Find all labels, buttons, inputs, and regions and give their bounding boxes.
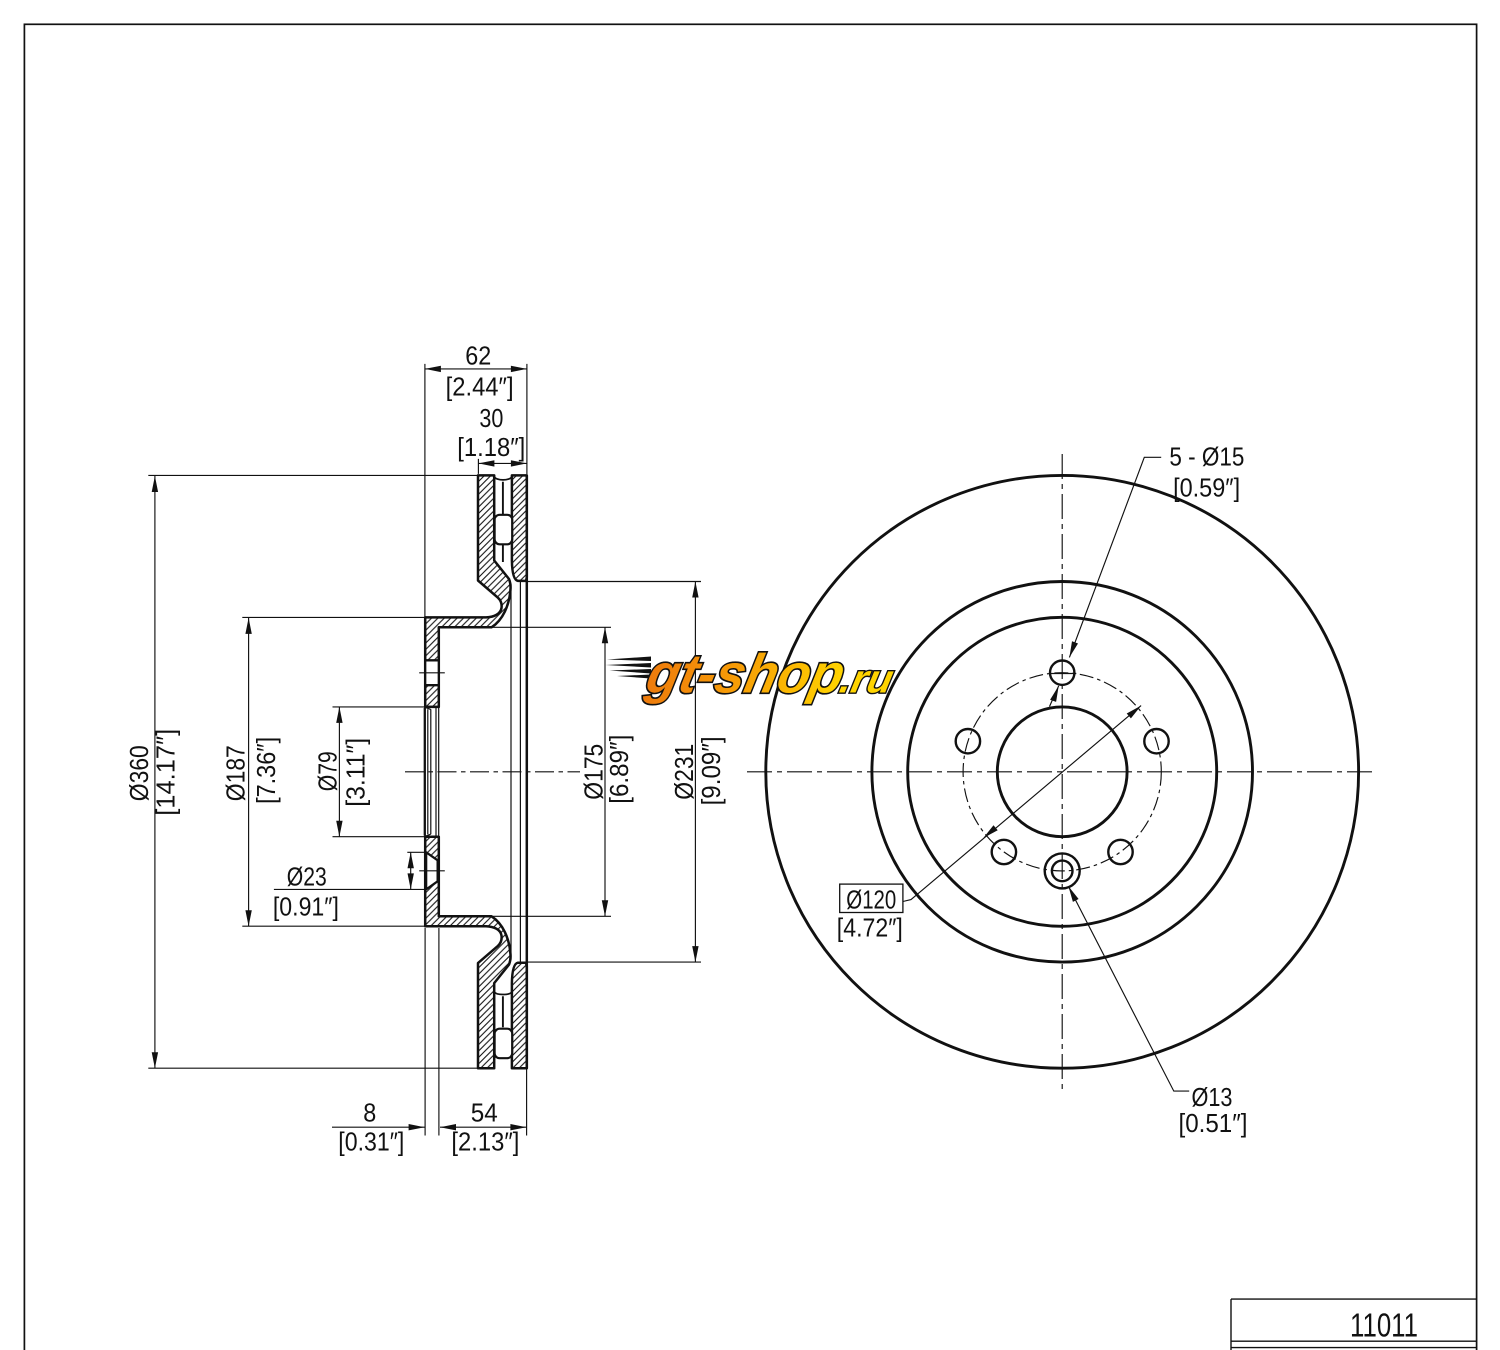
vent channel floor cap lower [494, 992, 512, 995]
svg-text:54: 54 [471, 1100, 498, 1128]
svg-text:[9.09″]: [9.09″] [698, 736, 726, 805]
outboard pad section lower (hatched) [512, 963, 527, 1068]
leader 5-D15 [1050, 457, 1162, 706]
svg-text:11011: 11011 [1350, 1308, 1418, 1345]
bolt hole lower-right [1108, 840, 1132, 864]
svg-text:gt-shop: gt-shop [641, 643, 851, 704]
svg-text:Ø23: Ø23 [287, 864, 327, 892]
hub section lower (mirror, hatched) [425, 837, 510, 1068]
bolt hole top [1050, 661, 1074, 685]
dim 30 arrows [478, 460, 527, 466]
dim D231 lines [523, 582, 701, 963]
svg-text:Ø187: Ø187 [222, 745, 250, 801]
svg-text:[0.51″]: [0.51″] [1179, 1110, 1248, 1138]
svg-text:[3.11″]: [3.11″] [342, 738, 370, 807]
dim D79 arrows [336, 707, 342, 837]
dim D360 lines [148, 475, 477, 1068]
arrowheads [152, 366, 699, 1131]
D120 label box [840, 884, 903, 912]
svg-text:[2.13″]: [2.13″] [451, 1129, 519, 1157]
set screw hole center mark [419, 870, 445, 872]
leader D13 arrowhead [1068, 886, 1078, 902]
logo speed lines [606, 657, 652, 679]
vane upper (rounded, behind cut) [495, 515, 513, 545]
stud hole center mark [419, 672, 445, 674]
dim D175 lines [489, 627, 611, 916]
outboard face edge line [526, 475, 529, 1068]
bore chamfer slants [425, 707, 430, 836]
dim D360 arrows [152, 476, 158, 1068]
bolt circle D120 dash-dot [963, 673, 1161, 871]
svg-text:[6.89″]: [6.89″] [606, 735, 634, 804]
dim D187 arrows [245, 618, 251, 926]
set screw hole D13 [1052, 861, 1073, 882]
vent slot cap top [494, 477, 512, 480]
dim D23 lines [274, 852, 426, 889]
svg-text:[4.72″]: [4.72″] [837, 915, 903, 943]
section centerline [405, 771, 580, 773]
bore chamfer edges [428, 708, 439, 836]
hub section upper (inner pad + neck + hat + flange, hatched) [425, 475, 510, 707]
svg-text:Ø120: Ø120 [846, 886, 896, 914]
friction inner circle D231 [872, 582, 1253, 963]
bore top edge [424, 706, 439, 708]
bolt hole lower-left [992, 840, 1016, 864]
dimension texts [126, 343, 726, 1157]
dim 8 arrows [409, 1124, 456, 1130]
set screw hole countersink D23 [1045, 853, 1080, 888]
svg-text:Ø360: Ø360 [126, 745, 154, 801]
svg-text:62: 62 [465, 343, 491, 371]
leader D120 [903, 706, 1141, 902]
svg-text:Ø79: Ø79 [314, 751, 342, 791]
dim D175 arrows [602, 627, 608, 916]
leader 5-D15 arrowheads [1050, 641, 1078, 702]
svg-text:Ø13: Ø13 [1192, 1084, 1233, 1112]
vane lower [495, 1029, 513, 1059]
svg-text:[14.17″]: [14.17″] [152, 729, 180, 816]
svg-text:[7.36″]: [7.36″] [253, 737, 281, 804]
bore bottom edge [424, 836, 439, 838]
outer circle D360 [766, 475, 1359, 1068]
dim D79 lines [333, 707, 425, 837]
wheel stud hole (section) [425, 660, 439, 685]
svg-text:Ø175: Ø175 [581, 744, 609, 800]
set screw hole 23/13 (section) [426, 852, 437, 889]
svg-text:5 - Ø15: 5 - Ø15 [1169, 444, 1244, 472]
svg-text:30: 30 [479, 405, 503, 433]
leader D13 [1068, 886, 1189, 1091]
dim 62 lines [425, 364, 527, 617]
bolt hole upper-right [1144, 729, 1168, 753]
dim 30 lines [478, 459, 527, 474]
vent wall edge line [510, 584, 512, 961]
svg-text:.ru: .ru [836, 656, 898, 701]
outboard pad section upper (hatched) [512, 475, 527, 581]
vent mid channel lines [502, 482, 504, 1027]
svg-text:[2.44″]: [2.44″] [446, 373, 514, 401]
hat circle D187 [908, 617, 1217, 926]
dim 8 and 54 lines [332, 928, 527, 1136]
dim D23 arrows [408, 852, 414, 889]
dim 54 arrow [510, 1124, 526, 1130]
leader D120 arrowheads [983, 706, 1141, 838]
svg-text:8: 8 [363, 1100, 376, 1128]
svg-text:[0.91″]: [0.91″] [273, 894, 339, 922]
dim D187 lines [242, 617, 425, 926]
dim D231 arrows [692, 582, 698, 963]
title block lines [1231, 1299, 1477, 1350]
vertical centerline [1061, 454, 1063, 1092]
svg-text:[0.31″]: [0.31″] [338, 1129, 404, 1157]
dim 62 arrows [425, 366, 527, 372]
horizontal centerline [747, 771, 1377, 773]
svg-text:[1.18″]: [1.18″] [457, 434, 525, 462]
center bore D79 [997, 707, 1127, 837]
svg-text:[0.59″]: [0.59″] [1173, 475, 1240, 503]
pad chamfer edge line [519, 582, 521, 963]
bolt hole upper-left [956, 729, 980, 753]
mounting face edge through bore [424, 708, 426, 836]
top hole center tick [1050, 673, 1076, 675]
svg-text:Ø231: Ø231 [671, 744, 699, 800]
